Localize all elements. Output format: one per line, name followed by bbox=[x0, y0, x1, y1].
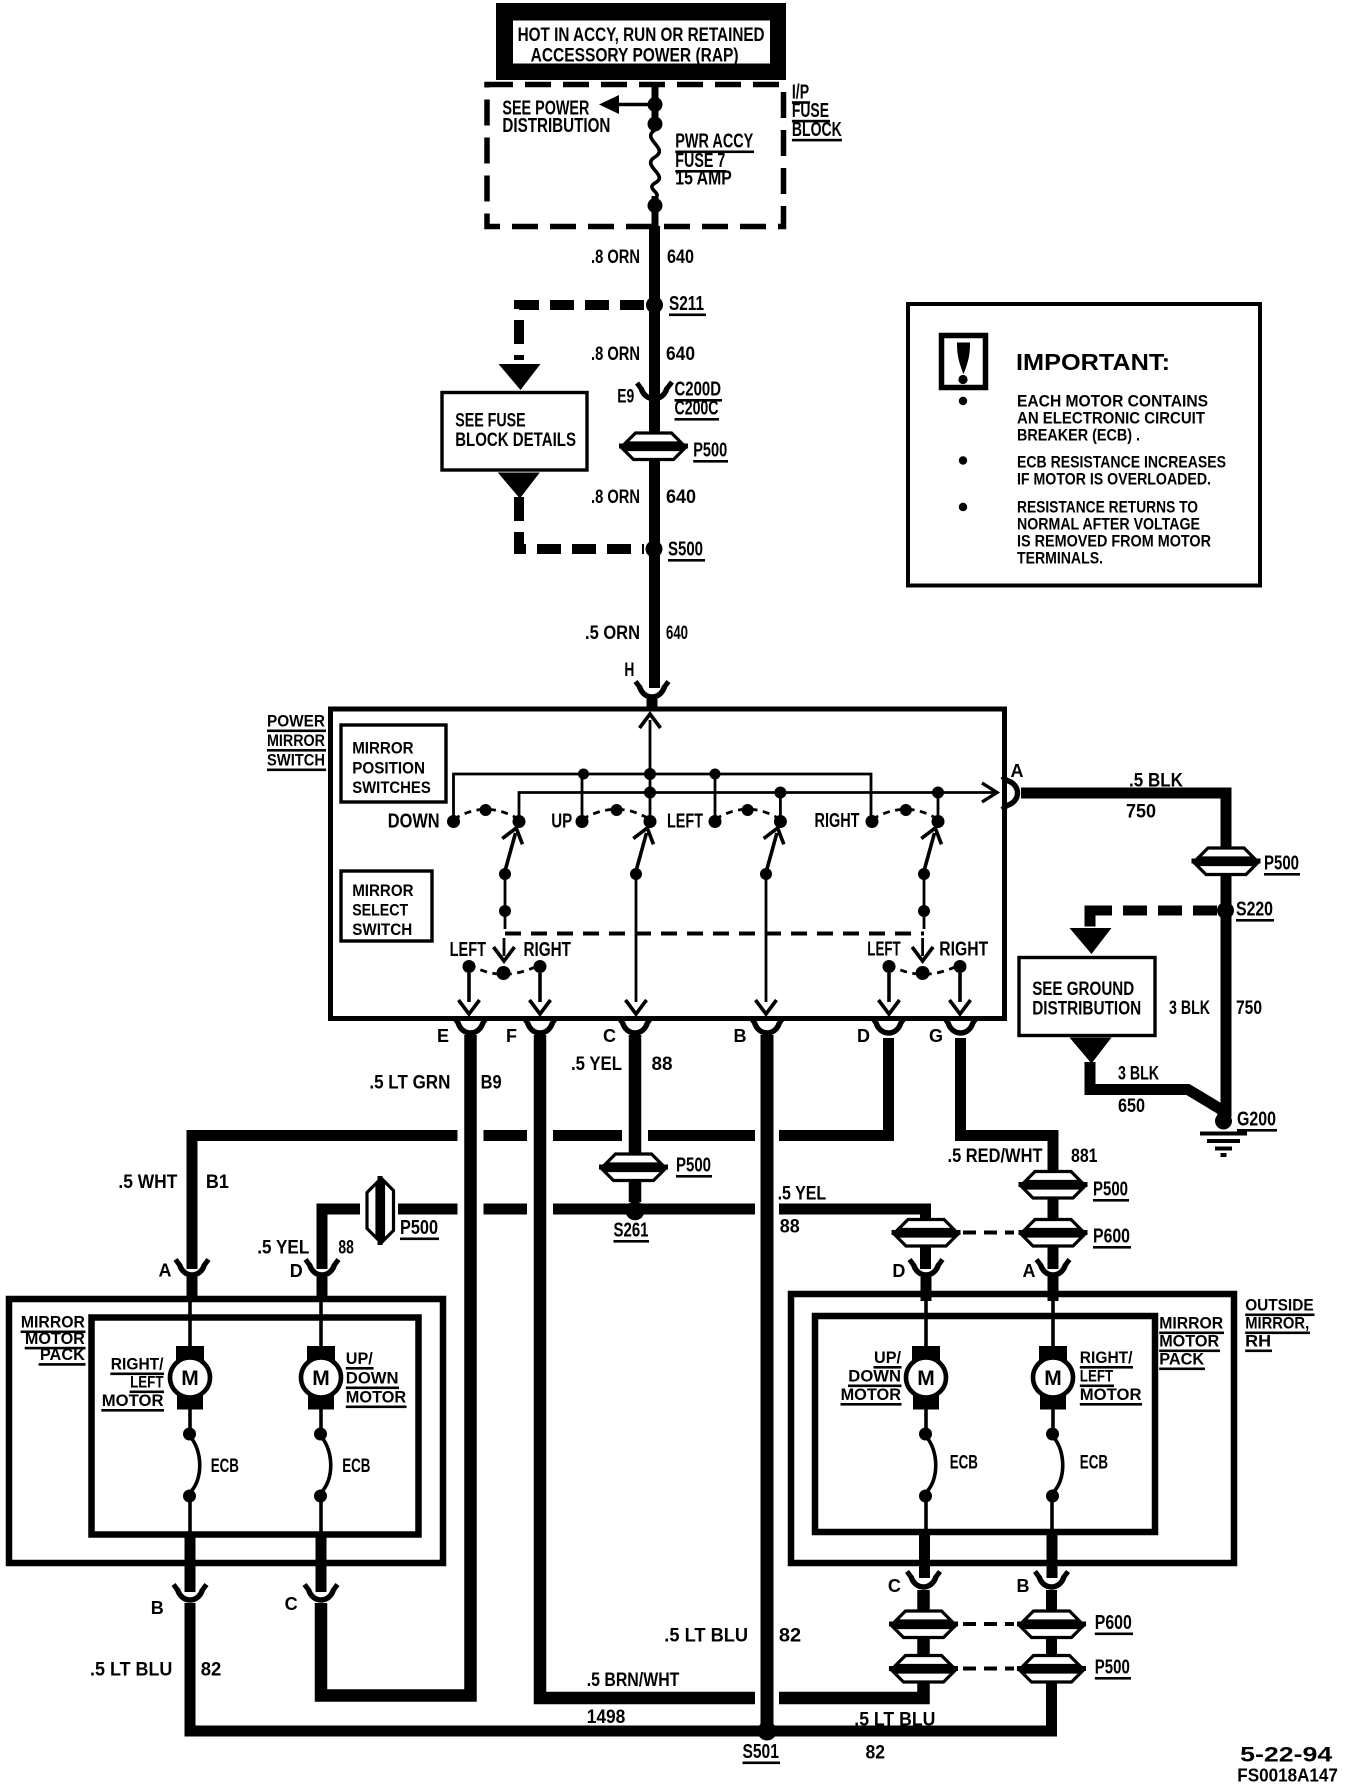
svg-text:RH: RH bbox=[1245, 1332, 1271, 1351]
svg-text:NORMAL AFTER VOLTAGE: NORMAL AFTER VOLTAGE bbox=[1017, 516, 1200, 534]
svg-text:C: C bbox=[285, 1594, 298, 1614]
svg-text:MOTOR: MOTOR bbox=[102, 1391, 164, 1410]
svg-text:C200C: C200C bbox=[675, 398, 719, 420]
svg-text:D: D bbox=[892, 1261, 905, 1281]
svg-text:3 BLK: 3 BLK bbox=[1118, 1064, 1159, 1085]
svg-text:BLOCK: BLOCK bbox=[792, 119, 842, 141]
svg-text:FS0018A147: FS0018A147 bbox=[1237, 1766, 1338, 1786]
svg-text:88: 88 bbox=[652, 1054, 673, 1075]
svg-text:A: A bbox=[159, 1261, 172, 1281]
svg-text:P500: P500 bbox=[676, 1155, 711, 1177]
svg-text:LEFT: LEFT bbox=[450, 939, 486, 961]
svg-text:.5 BLK: .5 BLK bbox=[1129, 771, 1183, 792]
svg-text:640: 640 bbox=[667, 247, 694, 268]
svg-text:G200: G200 bbox=[1237, 1109, 1276, 1131]
svg-text:MIRROR,: MIRROR, bbox=[1245, 1314, 1309, 1333]
svg-text:SELECT: SELECT bbox=[352, 901, 409, 920]
svg-text:P600: P600 bbox=[1093, 1226, 1130, 1248]
svg-text:DOWN: DOWN bbox=[346, 1369, 399, 1388]
svg-text:.5 YEL: .5 YEL bbox=[257, 1238, 309, 1259]
svg-text:S211: S211 bbox=[669, 293, 704, 315]
svg-text:750: 750 bbox=[1236, 998, 1262, 1019]
svg-text:ACCESSORY POWER (RAP): ACCESSORY POWER (RAP) bbox=[531, 46, 739, 67]
svg-text:P500: P500 bbox=[400, 1217, 438, 1239]
svg-text:LEFT: LEFT bbox=[667, 811, 703, 833]
svg-text:.8 ORN: .8 ORN bbox=[591, 247, 640, 268]
svg-text:881: 881 bbox=[1071, 1146, 1098, 1167]
svg-text:.5 BRN/WHT: .5 BRN/WHT bbox=[587, 1670, 680, 1691]
svg-text:B: B bbox=[734, 1026, 747, 1046]
svg-text:A: A bbox=[1011, 761, 1024, 781]
svg-text:B: B bbox=[151, 1598, 164, 1618]
svg-text:MIRROR: MIRROR bbox=[352, 739, 413, 758]
svg-text:.8 ORN: .8 ORN bbox=[591, 344, 640, 365]
svg-text:3 BLK: 3 BLK bbox=[1169, 998, 1210, 1019]
svg-text:RIGHT: RIGHT bbox=[815, 810, 860, 832]
svg-text:B: B bbox=[1017, 1576, 1030, 1596]
svg-text:E9: E9 bbox=[617, 387, 634, 408]
svg-text:ECB: ECB bbox=[211, 1456, 239, 1477]
svg-text:EACH MOTOR CONTAINS: EACH MOTOR CONTAINS bbox=[1017, 393, 1208, 411]
svg-text:.5 YEL: .5 YEL bbox=[778, 1184, 827, 1205]
svg-text:LEFT: LEFT bbox=[1080, 1367, 1114, 1386]
svg-text:.5 LT BLU: .5 LT BLU bbox=[854, 1710, 935, 1731]
svg-text:S261: S261 bbox=[614, 1220, 649, 1242]
svg-text:AN ELECTRONIC CIRCUIT: AN ELECTRONIC CIRCUIT bbox=[1017, 410, 1205, 428]
svg-text:RIGHT: RIGHT bbox=[524, 939, 572, 961]
svg-text:82: 82 bbox=[866, 1743, 886, 1764]
svg-text:15 AMP: 15 AMP bbox=[675, 168, 732, 190]
svg-text:PACK: PACK bbox=[1159, 1350, 1205, 1369]
svg-text:.8 ORN: .8 ORN bbox=[591, 487, 640, 508]
svg-text:B9: B9 bbox=[481, 1073, 502, 1094]
svg-text:.5 YEL: .5 YEL bbox=[571, 1054, 622, 1075]
svg-text:DISTRIBUTION: DISTRIBUTION bbox=[1032, 999, 1141, 1020]
svg-text:SWITCHES: SWITCHES bbox=[352, 778, 431, 797]
svg-text:5-22-94: 5-22-94 bbox=[1240, 1744, 1333, 1767]
svg-text:MIRROR: MIRROR bbox=[352, 881, 413, 900]
svg-text:.5 LT BLU: .5 LT BLU bbox=[90, 1660, 172, 1681]
svg-text:F: F bbox=[506, 1026, 517, 1046]
svg-text:ECB RESISTANCE INCREASES: ECB RESISTANCE INCREASES bbox=[1017, 454, 1226, 472]
svg-text:MIRROR: MIRROR bbox=[267, 731, 325, 750]
svg-text:P500: P500 bbox=[1264, 853, 1299, 875]
svg-text:.5 RED/WHT: .5 RED/WHT bbox=[948, 1146, 1043, 1167]
svg-text:640: 640 bbox=[666, 344, 695, 365]
svg-text:P500: P500 bbox=[1093, 1179, 1128, 1201]
svg-text:SWITCH: SWITCH bbox=[352, 920, 412, 939]
svg-text:.5 ORN: .5 ORN bbox=[585, 623, 640, 644]
svg-text:MOTOR: MOTOR bbox=[346, 1388, 406, 1407]
svg-text:POWER: POWER bbox=[267, 712, 325, 731]
svg-text:IMPORTANT:: IMPORTANT: bbox=[1016, 349, 1170, 375]
svg-text:S500: S500 bbox=[668, 539, 703, 561]
svg-text:88: 88 bbox=[780, 1217, 800, 1238]
svg-text:A: A bbox=[1023, 1261, 1036, 1281]
svg-text:MOTOR: MOTOR bbox=[1159, 1332, 1219, 1351]
svg-text:ECB: ECB bbox=[1080, 1453, 1108, 1474]
svg-text:HOT IN ACCY, RUN OR RETAINED: HOT IN ACCY, RUN OR RETAINED bbox=[518, 25, 765, 46]
svg-text:P500: P500 bbox=[693, 440, 727, 462]
svg-text:SEE FUSE: SEE FUSE bbox=[455, 411, 526, 432]
svg-text:RIGHT/: RIGHT/ bbox=[1080, 1348, 1133, 1367]
svg-text:MOTOR: MOTOR bbox=[1080, 1385, 1142, 1404]
svg-text:DOWN: DOWN bbox=[388, 811, 440, 833]
svg-text:.5 WHT: .5 WHT bbox=[118, 1172, 177, 1193]
svg-text:D: D bbox=[857, 1026, 870, 1046]
svg-text:.5 LT BLU: .5 LT BLU bbox=[664, 1626, 748, 1647]
svg-text:RESISTANCE RETURNS TO: RESISTANCE RETURNS TO bbox=[1017, 499, 1198, 517]
svg-text:LEFT: LEFT bbox=[130, 1373, 164, 1392]
svg-text:P600: P600 bbox=[1095, 1612, 1132, 1634]
svg-text:UP: UP bbox=[551, 811, 572, 833]
svg-text:640: 640 bbox=[666, 487, 696, 508]
svg-text:BREAKER (ECB) .: BREAKER (ECB) . bbox=[1017, 427, 1140, 445]
svg-text:DISTRIBUTION: DISTRIBUTION bbox=[502, 115, 610, 137]
svg-text:BLOCK DETAILS: BLOCK DETAILS bbox=[455, 430, 576, 451]
svg-text:C: C bbox=[603, 1026, 616, 1046]
svg-text:UP/: UP/ bbox=[874, 1348, 901, 1367]
svg-text:DOWN: DOWN bbox=[848, 1367, 901, 1386]
svg-text:RIGHT/: RIGHT/ bbox=[111, 1355, 164, 1374]
svg-text:IS REMOVED FROM MOTOR: IS REMOVED FROM MOTOR bbox=[1017, 533, 1211, 551]
svg-text:UP/: UP/ bbox=[346, 1349, 373, 1368]
svg-text:LEFT: LEFT bbox=[867, 939, 900, 961]
svg-text:POSITION: POSITION bbox=[352, 759, 425, 778]
svg-text:.5 LT GRN: .5 LT GRN bbox=[369, 1073, 450, 1094]
svg-text:IF MOTOR IS OVERLOADED.: IF MOTOR IS OVERLOADED. bbox=[1017, 471, 1211, 489]
svg-text:750: 750 bbox=[1126, 802, 1156, 823]
svg-text:82: 82 bbox=[201, 1660, 222, 1681]
svg-text:82: 82 bbox=[779, 1626, 801, 1647]
svg-text:1498: 1498 bbox=[587, 1707, 626, 1728]
svg-text:PACK: PACK bbox=[40, 1345, 86, 1364]
svg-text:640: 640 bbox=[666, 623, 688, 644]
svg-text:RIGHT: RIGHT bbox=[939, 939, 988, 961]
svg-text:650: 650 bbox=[1118, 1096, 1145, 1117]
svg-text:H: H bbox=[624, 660, 634, 681]
svg-text:C: C bbox=[888, 1576, 901, 1596]
svg-text:MIRROR: MIRROR bbox=[1159, 1314, 1223, 1333]
svg-text:E: E bbox=[437, 1026, 449, 1046]
svg-text:TERMINALS.: TERMINALS. bbox=[1017, 550, 1103, 568]
svg-text:ECB: ECB bbox=[342, 1456, 370, 1477]
svg-text:D: D bbox=[290, 1261, 303, 1281]
svg-text:G: G bbox=[929, 1026, 943, 1046]
svg-text:ECB: ECB bbox=[950, 1453, 978, 1474]
svg-text:S220: S220 bbox=[1236, 899, 1273, 921]
svg-text:OUTSIDE: OUTSIDE bbox=[1245, 1296, 1313, 1315]
svg-text:S501: S501 bbox=[743, 1741, 779, 1763]
svg-text:MOTOR: MOTOR bbox=[841, 1385, 901, 1404]
svg-text:88: 88 bbox=[338, 1238, 354, 1259]
svg-text:B1: B1 bbox=[206, 1172, 229, 1193]
svg-text:SWITCH: SWITCH bbox=[267, 751, 325, 770]
svg-text:P500: P500 bbox=[1095, 1657, 1130, 1679]
svg-text:SEE GROUND: SEE GROUND bbox=[1032, 979, 1134, 1000]
